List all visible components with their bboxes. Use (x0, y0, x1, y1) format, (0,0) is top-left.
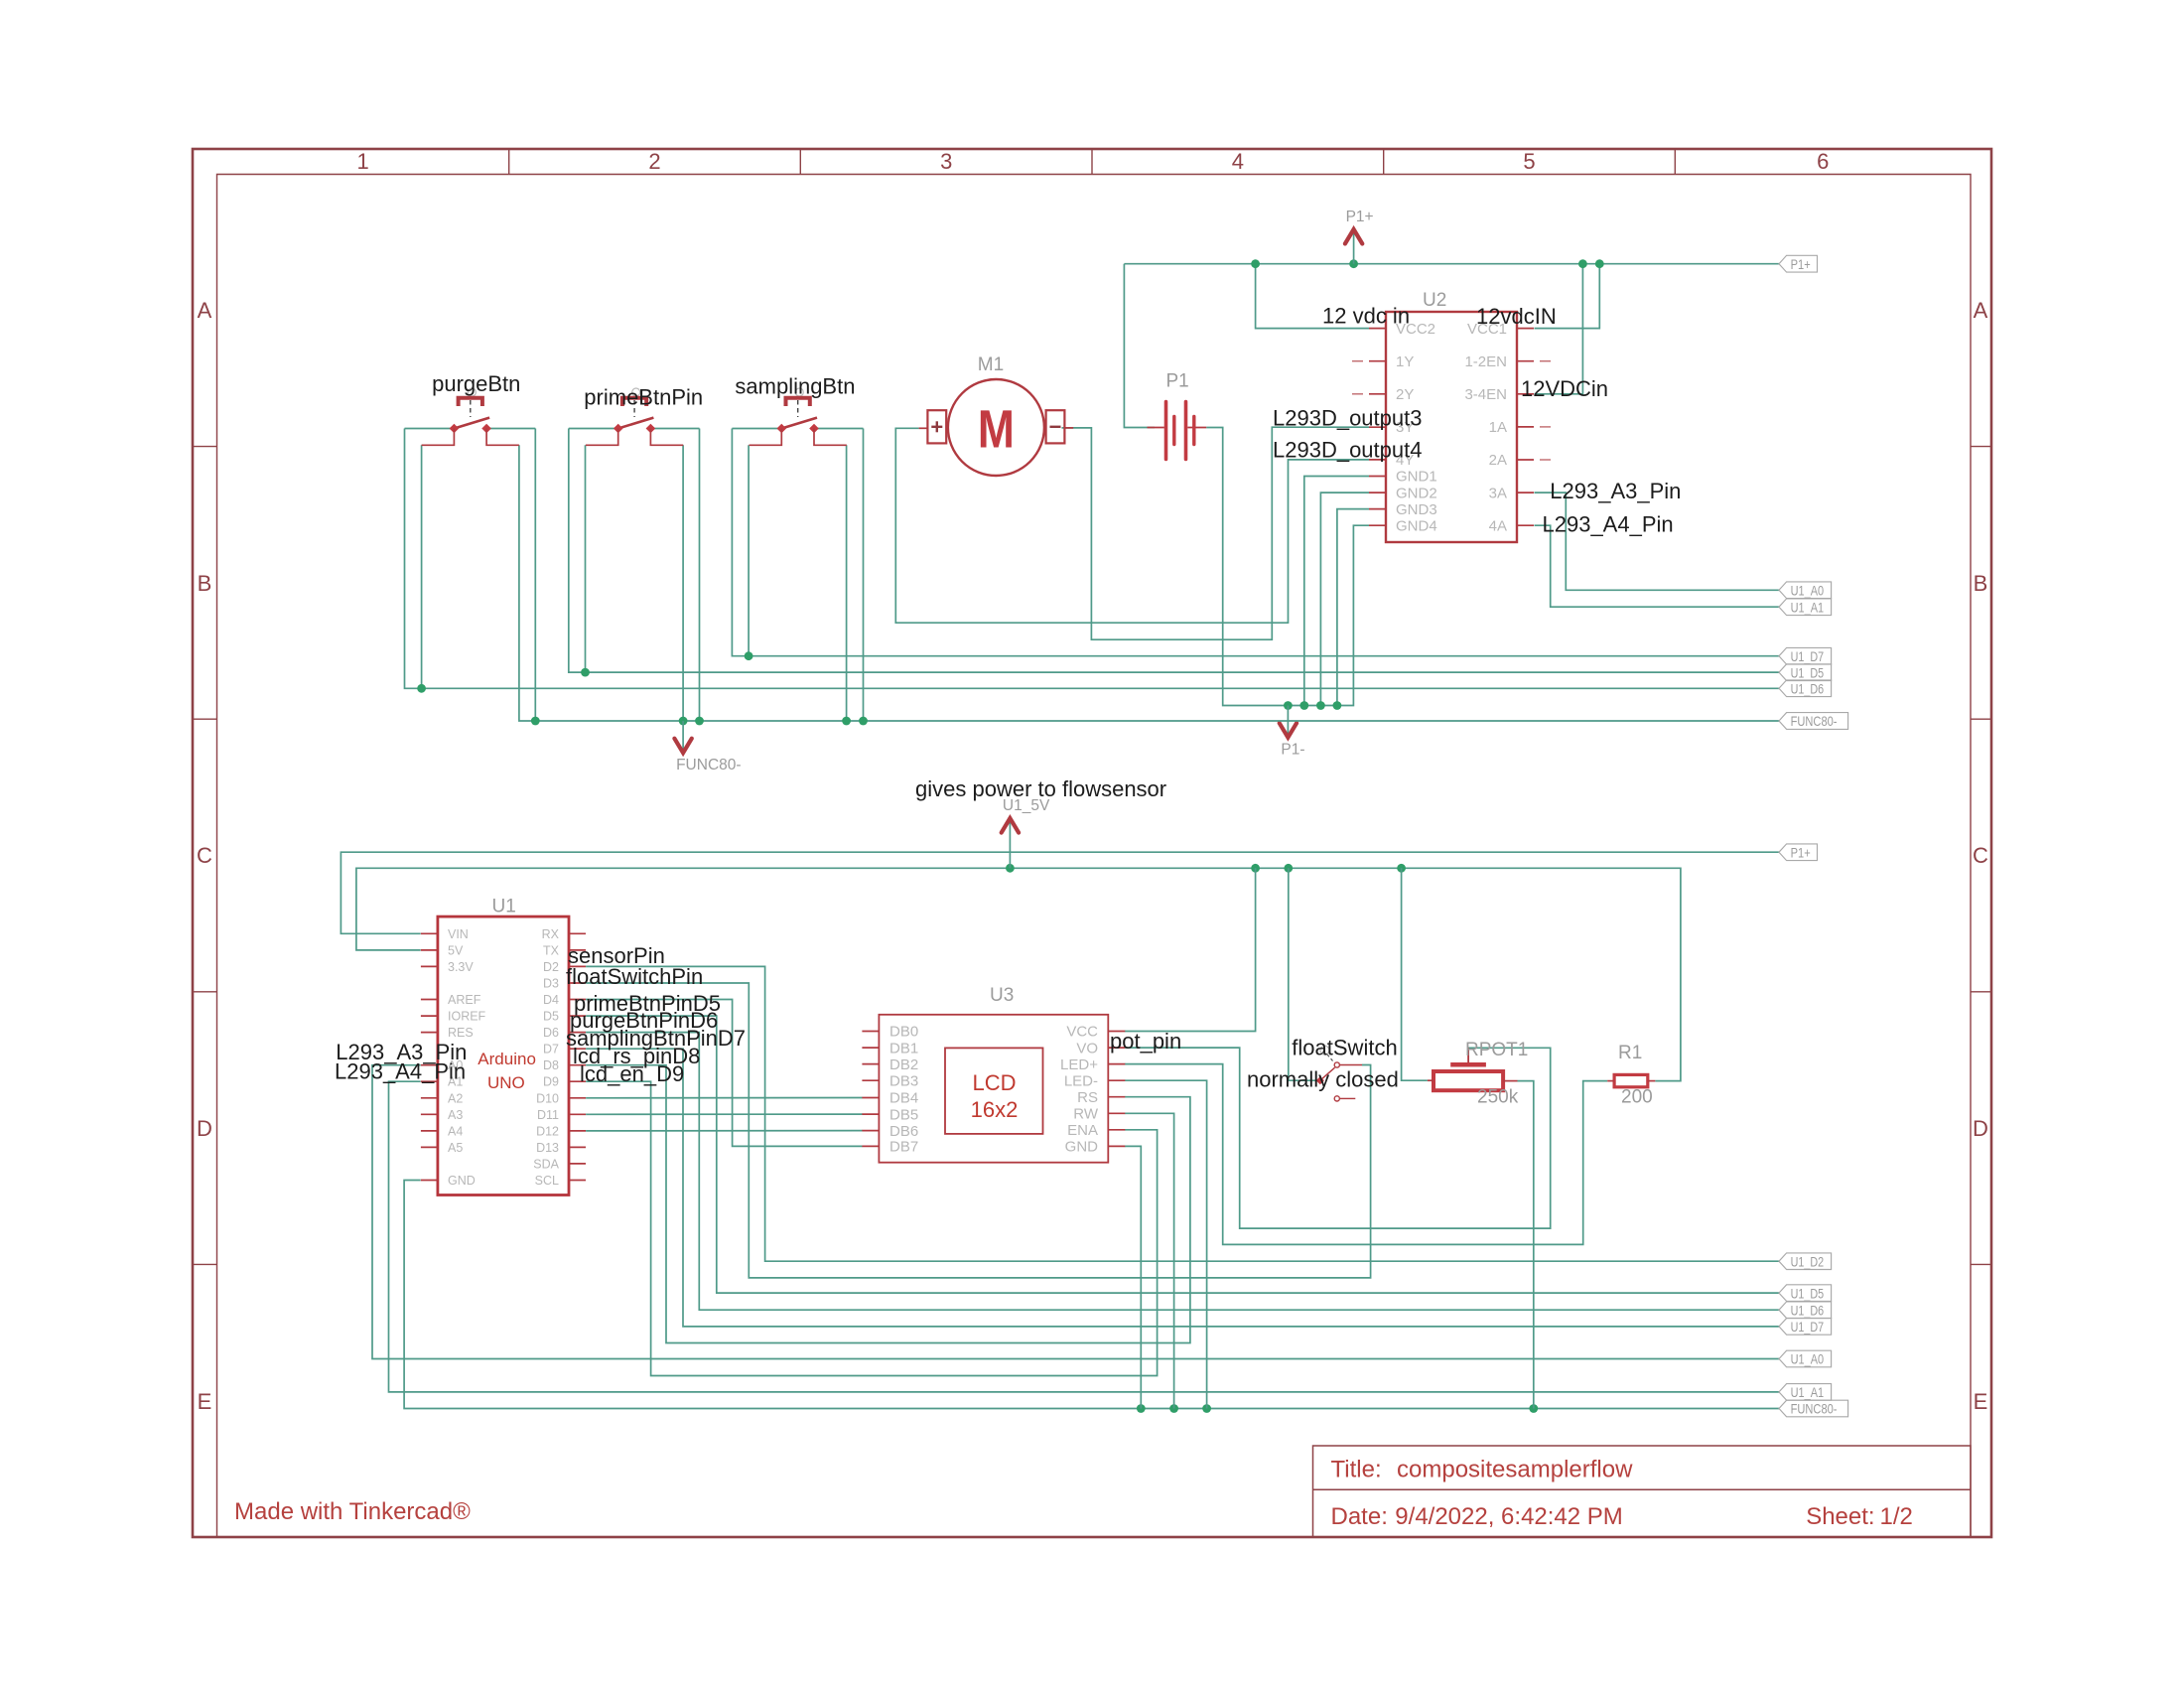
row letters (197, 298, 1988, 1414)
wire motor plus to 4Y (895, 428, 1369, 623)
wire 5V bus (356, 868, 1681, 1080)
svg-text:UNO: UNO (487, 1073, 525, 1092)
wire primeBtn outer-right (699, 429, 701, 722)
wire LCD VCC to 5V (1125, 868, 1256, 1031)
svg-text:D10: D10 (536, 1091, 559, 1105)
resistor R1 (1607, 1074, 1655, 1086)
svg-text:U1_A1: U1_A1 (1791, 599, 1825, 615)
svg-text:LED+: LED+ (1060, 1056, 1098, 1073)
svg-text:P1: P1 (1166, 371, 1189, 392)
svg-text:RPOT1: RPOT1 (1465, 1040, 1528, 1060)
svg-text:U1_A0: U1_A0 (1791, 583, 1825, 599)
svg-text:A5: A5 (448, 1141, 463, 1155)
svg-text:B: B (198, 571, 212, 596)
wire GND3 riser (1337, 509, 1369, 706)
frame inner border (217, 175, 1972, 1538)
svg-text:RW: RW (1073, 1106, 1099, 1123)
title block (1313, 1446, 1972, 1537)
svg-text:DB2: DB2 (889, 1056, 918, 1073)
svg-text:DB3: DB3 (889, 1072, 918, 1089)
svg-text:TX: TX (543, 943, 560, 957)
wire VIN to P1+ flag (341, 852, 1779, 933)
wire D10 to LCD DB4 (586, 1097, 863, 1099)
svg-text:U1_D2: U1_D2 (1791, 1253, 1825, 1269)
svg-text:U3: U3 (990, 985, 1014, 1006)
potentiometer RPOT1 (1428, 1048, 1518, 1090)
svg-text:L293_A3_Pin: L293_A3_Pin (1550, 479, 1681, 503)
svg-text:U2: U2 (1423, 290, 1446, 311)
svg-text:E: E (1974, 1389, 1988, 1414)
switch floatSwitch (1316, 1046, 1362, 1101)
svg-text:VO: VO (1076, 1040, 1098, 1056)
svg-text:L293_A4_Pin: L293_A4_Pin (1543, 512, 1674, 537)
net flag U1_D2 bottom (1779, 1253, 1832, 1270)
svg-text:5: 5 (1523, 149, 1535, 174)
svg-text:D6: D6 (543, 1026, 559, 1040)
svg-text:A: A (198, 298, 212, 323)
svg-text:P1+: P1+ (1791, 844, 1811, 860)
IC U1 Arduino UNO (438, 916, 569, 1195)
svg-text:AREF: AREF (448, 993, 481, 1007)
wire 3-4EN branch (1535, 264, 1583, 394)
svg-text:D: D (1973, 1116, 1988, 1141)
wire samplingBtn inner-left (748, 445, 750, 655)
svg-text:purgeBtn: purgeBtn (432, 371, 520, 396)
svg-text:L293D_output4: L293D_output4 (1273, 438, 1422, 463)
svg-text:samplingBtn: samplingBtn (735, 374, 855, 399)
svg-text:D13: D13 (536, 1141, 559, 1155)
U1 pin stubs (421, 933, 586, 1180)
svg-text:D11: D11 (537, 1108, 559, 1122)
svg-text:A3: A3 (448, 1108, 463, 1122)
junction dots on FUNC80- bus (531, 717, 868, 726)
svg-text:GND3: GND3 (1396, 501, 1437, 518)
net flag U1_D6 bottom (1779, 1302, 1832, 1319)
power flag P1+ top (1353, 232, 1355, 264)
wire RPOT1 right to ground row (1518, 1081, 1534, 1409)
svg-text:L293_A4_Pin: L293_A4_Pin (335, 1059, 466, 1084)
junction dots on P1- bus (1284, 701, 1341, 710)
wire D4 to LCD DB7 (586, 1000, 863, 1147)
svg-text:RX: RX (542, 927, 560, 941)
wire GND2 riser (1320, 492, 1369, 705)
svg-text:3-4EN: 3-4EN (1464, 386, 1507, 403)
junction dots on 5V bus (1006, 864, 1406, 873)
svg-text:lcd_en_D9: lcd_en_D9 (580, 1061, 684, 1086)
svg-text:M1: M1 (978, 354, 1004, 375)
wire primeBtn net to U1_D5 flag (569, 429, 1779, 673)
wire D2 to U1_D2 flag (586, 966, 1779, 1261)
IC U3 LCD 16x2 (879, 1015, 1108, 1163)
svg-text:4A: 4A (1489, 517, 1507, 534)
wire primeBtn inner-right (682, 445, 684, 721)
net flag U1_D6 top (1779, 680, 1832, 697)
svg-text:2Y: 2Y (1396, 386, 1414, 403)
svg-text:6: 6 (1817, 149, 1829, 174)
svg-text:A4: A4 (448, 1124, 463, 1138)
wire 5V to floatSwitch lever (1289, 868, 1317, 1080)
net flag FUNC80- top (1779, 713, 1848, 730)
svg-text:U1_D7: U1_D7 (1791, 648, 1825, 664)
U3 pin stubs (862, 1032, 1125, 1147)
net flag U1_D5 bottom (1779, 1285, 1832, 1302)
svg-text:gives power to flowsensor: gives power to flowsensor (915, 776, 1166, 801)
svg-text:U1_D7: U1_D7 (1791, 1319, 1825, 1335)
pushbutton samplingBtn (750, 388, 847, 445)
svg-text:Made with Tinkercad®: Made with Tinkercad® (234, 1498, 471, 1525)
wire D6 to U1_D6 flag (586, 1033, 1779, 1311)
svg-text:U1: U1 (492, 897, 516, 917)
svg-text:4: 4 (1232, 149, 1244, 174)
svg-text:D9: D9 (543, 1075, 559, 1089)
wire 3A to U1_A0 flag (1535, 492, 1780, 590)
svg-text:SCL: SCL (535, 1174, 559, 1188)
svg-text:C: C (197, 843, 212, 868)
wire primeBtn right terminal (654, 428, 700, 430)
svg-text:FUNC80-: FUNC80- (1791, 1401, 1838, 1417)
wire D3 to floatSwitch (586, 983, 1371, 1278)
wire P1+ top bus (1124, 263, 1779, 265)
net flag U1_A0 top (1779, 582, 1832, 599)
svg-text:9/4/2022, 6:42:42 PM: 9/4/2022, 6:42:42 PM (1395, 1503, 1623, 1530)
wire LCD RW to ground row (1125, 1113, 1174, 1408)
svg-text:LED-: LED- (1064, 1072, 1098, 1089)
wire purgeBtn right terminal (490, 428, 536, 430)
svg-text:D4: D4 (543, 993, 559, 1007)
wire D8 to LCD RS (586, 1065, 1190, 1343)
svg-text:RES: RES (448, 1026, 474, 1040)
svg-text:12 vdc in: 12 vdc in (1322, 304, 1410, 329)
U2 pin stubs (1352, 329, 1551, 526)
svg-text:D3: D3 (543, 977, 559, 991)
wire D11 to LCD DB5 (586, 1113, 863, 1115)
junction dot primeBtn (581, 668, 590, 677)
wire purgeBtn inner-left (421, 445, 423, 688)
svg-text:GND1: GND1 (1396, 469, 1437, 486)
net flag FUNC80- bottom (1779, 1400, 1848, 1417)
svg-text:LCD: LCD (972, 1070, 1016, 1095)
svg-text:3: 3 (940, 149, 952, 174)
svg-text:P1-: P1- (1281, 742, 1304, 759)
wire GND to FUNC80- flag (404, 1181, 1779, 1409)
svg-text:U1_A0: U1_A0 (1791, 1351, 1825, 1367)
svg-text:ENA: ENA (1067, 1122, 1098, 1139)
svg-text:Sheet:: Sheet: (1806, 1503, 1874, 1530)
wire 5V to RPOT1 left (1402, 868, 1428, 1080)
svg-text:U1_D5: U1_D5 (1791, 664, 1825, 680)
frame outer border (193, 149, 1991, 1537)
wire P1+ to battery (1124, 264, 1155, 428)
svg-text:B: B (1974, 571, 1988, 596)
wire D12 to LCD DB6 (586, 1130, 863, 1132)
net flag P1+ right (1779, 255, 1818, 272)
svg-text:L293D_output3: L293D_output3 (1273, 406, 1422, 431)
svg-text:1: 1 (356, 149, 368, 174)
wire LCD LED- to ground row (1125, 1080, 1207, 1408)
svg-text:2A: 2A (1489, 452, 1507, 469)
svg-text:U1_D6: U1_D6 (1791, 681, 1825, 697)
svg-text:16x2: 16x2 (971, 1097, 1019, 1122)
power flag FUNC80- down (682, 721, 684, 750)
svg-text:floatSwitch: floatSwitch (1292, 1036, 1397, 1060)
svg-text:DB7: DB7 (889, 1139, 918, 1156)
wire A0 to U1_A0 flag (372, 1065, 1779, 1359)
svg-text:FUNC80-: FUNC80- (676, 757, 741, 774)
svg-text:D12: D12 (536, 1124, 559, 1138)
svg-text:VCC: VCC (1066, 1024, 1098, 1041)
net flag U1_D7 top (1779, 647, 1832, 664)
svg-text:DB6: DB6 (889, 1123, 918, 1140)
wire samplingBtn inner-right (846, 445, 848, 721)
wire A1 to U1_A1 flag (389, 1081, 1780, 1392)
svg-text:normally closed: normally closed (1247, 1066, 1399, 1091)
power flag P1- down (1287, 706, 1289, 735)
wire VCC2 branch (1256, 264, 1369, 329)
svg-text:RS: RS (1077, 1089, 1098, 1106)
wire primeBtn inner-left (585, 445, 587, 672)
svg-text:P1+: P1+ (1346, 209, 1374, 225)
wire LCD GND to ground row (1125, 1146, 1141, 1408)
wire FUNC80- bus (519, 445, 1779, 721)
svg-text:1/2: 1/2 (1880, 1503, 1913, 1530)
power flag U1_5V (1009, 821, 1011, 868)
wire D7 to U1_D7 flag (586, 1049, 1779, 1327)
pushbutton primeBtnPin (586, 388, 683, 445)
net flag U1_D5 top (1779, 664, 1832, 681)
svg-text:1-2EN: 1-2EN (1464, 353, 1507, 370)
svg-text:250k: 250k (1477, 1087, 1519, 1108)
svg-text:Date:: Date: (1331, 1503, 1388, 1530)
svg-text:floatSwitchPin: floatSwitchPin (566, 964, 703, 989)
svg-text:Arduino: Arduino (478, 1050, 536, 1068)
svg-text:pot_pin: pot_pin (1110, 1029, 1181, 1054)
wire LCD LED+ to R1 (1125, 1064, 1607, 1245)
wire purgeBtn outer-right (534, 429, 536, 722)
svg-text:3.3V: 3.3V (448, 960, 474, 974)
wire samplingBtn left terminal (732, 428, 778, 430)
wire D5 to U1_D5 flag (586, 1016, 1779, 1293)
junction dots on ground row (1137, 1404, 1538, 1413)
svg-text:IOREF: IOREF (448, 1010, 486, 1024)
junction dot samplingBtn (745, 651, 753, 660)
svg-text:12vdcIN: 12vdcIN (1476, 304, 1557, 329)
svg-text:U1_D5: U1_D5 (1791, 1285, 1825, 1301)
svg-text:P1+: P1+ (1791, 256, 1811, 272)
net flag U1_D7 bottom (1779, 1319, 1832, 1336)
svg-text:GND: GND (448, 1174, 476, 1188)
svg-text:GND4: GND4 (1396, 517, 1437, 534)
junction dot purgeBtn (417, 684, 426, 693)
svg-text:compositesamplerflow: compositesamplerflow (1397, 1457, 1633, 1483)
column numbers (356, 149, 1829, 174)
wire purgeBtn net to U1_D6 flag (405, 429, 1780, 689)
svg-text:D: D (197, 1116, 212, 1141)
svg-text:Title:: Title: (1331, 1457, 1382, 1483)
svg-text:D8: D8 (543, 1058, 559, 1072)
svg-text:12VDCin: 12VDCin (1521, 376, 1608, 401)
svg-text:A: A (1974, 298, 1988, 323)
wire D9 to LCD ENA (586, 1081, 1158, 1375)
svg-text:SDA: SDA (533, 1157, 559, 1171)
frame row ticks (193, 447, 1991, 1265)
svg-text:3A: 3A (1489, 485, 1507, 501)
wire purgeBtn left terminal (405, 428, 452, 430)
IC U2 L293D (1386, 312, 1517, 542)
wire GND1 riser (1304, 477, 1369, 706)
svg-text:DB5: DB5 (889, 1106, 918, 1123)
svg-text:R1: R1 (1618, 1043, 1642, 1063)
wire primeBtn left terminal (569, 428, 615, 430)
frame column ticks (509, 149, 1676, 175)
net flag U1_A1 top (1779, 599, 1832, 616)
svg-text:M: M (978, 400, 1015, 460)
motor M1 (919, 379, 1074, 476)
svg-text:primeBtnPin: primeBtnPin (584, 385, 703, 410)
wire samplingBtn net to U1_D7 flag (732, 429, 1779, 656)
svg-text:DB0: DB0 (889, 1024, 918, 1041)
svg-text:D7: D7 (543, 1043, 559, 1056)
svg-text:E: E (198, 1389, 212, 1414)
svg-text:U1_D6: U1_D6 (1791, 1302, 1825, 1318)
svg-text:GND2: GND2 (1396, 485, 1437, 501)
net flag U1_A1 bottom (1779, 1384, 1832, 1401)
wire motor minus to 3Y (1062, 427, 1370, 639)
svg-text:1A: 1A (1489, 419, 1507, 436)
svg-text:200: 200 (1621, 1087, 1653, 1108)
svg-text:GND: GND (1065, 1139, 1099, 1156)
wire samplingBtn outer-right (863, 429, 865, 722)
net flag U1_A0 bottom (1779, 1350, 1832, 1367)
net flag P1+ row C (1779, 844, 1818, 861)
wire VCC1 branch (1535, 264, 1600, 329)
svg-text:D5: D5 (543, 1010, 559, 1024)
pushbutton purgeBtn (422, 388, 519, 445)
wire 4A to U1_A1 flag (1535, 525, 1780, 607)
svg-text:A2: A2 (448, 1091, 463, 1105)
svg-text:DB1: DB1 (889, 1040, 918, 1056)
svg-text:C: C (1973, 843, 1988, 868)
wire battery minus down (1206, 428, 1369, 706)
svg-text:D2: D2 (543, 960, 559, 974)
battery P1 (1148, 402, 1207, 460)
svg-text:VIN: VIN (448, 927, 469, 941)
svg-text:FUNC80-: FUNC80- (1791, 713, 1838, 729)
svg-text:U1_A1: U1_A1 (1791, 1384, 1825, 1400)
svg-text:1Y: 1Y (1396, 353, 1414, 370)
wire samplingBtn right terminal (817, 428, 863, 430)
svg-text:2: 2 (648, 149, 660, 174)
svg-text:DB4: DB4 (889, 1090, 918, 1107)
junction dots on P1+ bus (1251, 259, 1604, 268)
svg-text:5V: 5V (448, 943, 464, 957)
wire LCD VO to pot wiper (1125, 1048, 1551, 1228)
